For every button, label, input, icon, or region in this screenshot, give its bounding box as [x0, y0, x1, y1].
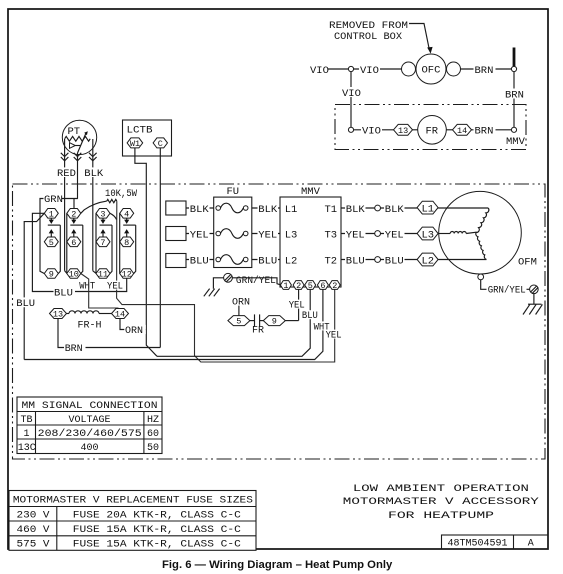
terminal W1	[127, 138, 143, 149]
contactor OFC	[402, 54, 461, 84]
terminal board LCTB	[123, 120, 172, 156]
wire ORN from 14	[120, 319, 146, 338]
svg-text:13: 13	[53, 310, 63, 320]
svg-text:LOW AMBIENT OPERATION: LOW AMBIENT OPERATION	[353, 483, 529, 495]
wire BRN from 13	[58, 319, 160, 356]
wire FR to 14	[446, 129, 452, 131]
label GRN/YEL	[235, 275, 276, 287]
svg-text:12: 12	[122, 270, 132, 280]
motor terminal L1	[417, 201, 438, 215]
plug arrow column 2	[67, 213, 83, 273]
wire BLU pin 5 to W1 trunk	[157, 290, 318, 357]
label YEL	[107, 281, 124, 293]
dash-dot accessory boundary box	[13, 184, 546, 459]
svg-text:FR-H: FR-H	[78, 321, 102, 332]
svg-text:GRN/YEL: GRN/YEL	[488, 285, 526, 297]
wire L1 into motor	[438, 207, 488, 209]
svg-text:1: 1	[49, 209, 54, 219]
field terminal square 2	[166, 227, 186, 241]
plug terminal 1	[44, 209, 58, 220]
terminal C	[153, 138, 167, 149]
svg-text:PT: PT	[68, 126, 81, 138]
svg-text:460 V: 460 V	[17, 524, 51, 536]
motor terminal L2	[417, 253, 438, 267]
svg-text:FU: FU	[227, 186, 240, 198]
svg-text:BLU: BLU	[258, 256, 277, 268]
wire VIO to node	[328, 68, 349, 70]
svg-text:3: 3	[100, 209, 105, 219]
wire YEL square2 to FU	[186, 229, 214, 242]
svg-text:208/230/460/575: 208/230/460/575	[38, 428, 142, 440]
wire break chevrons right	[89, 153, 97, 161]
dash-dot box MMV (small, top right)	[335, 105, 526, 150]
terminal 11	[96, 269, 110, 280]
svg-text:1: 1	[24, 429, 30, 440]
terminal 13 (heater)	[50, 309, 67, 320]
wire WHT jog to 14	[81, 274, 120, 309]
plug terminal 2	[67, 209, 81, 220]
contact terminal 9	[263, 316, 285, 327]
svg-text:OFM: OFM	[518, 256, 537, 268]
svg-text:ORN: ORN	[232, 297, 250, 308]
label YEL at pin 2a drop	[325, 330, 342, 342]
svg-text:BRN: BRN	[505, 90, 524, 102]
svg-text:BLK: BLK	[190, 204, 210, 216]
svg-text:T1: T1	[325, 204, 338, 216]
plug arrow column 3	[96, 213, 112, 273]
socket terminal 8	[120, 237, 134, 248]
svg-text:FUSE 15A KTK-R, CLASS C-C: FUSE 15A KTK-R, CLASS C-C	[73, 538, 241, 550]
svg-text:2: 2	[332, 281, 337, 291]
label RED	[57, 167, 77, 180]
potentiometer PT	[62, 120, 96, 154]
wire 9 to MMV pin 2	[285, 320, 298, 322]
wire BLK FU to MMV L1	[252, 203, 280, 216]
svg-text:LCTB: LCTB	[127, 124, 153, 136]
svg-text:11: 11	[98, 270, 108, 280]
node lower right	[511, 127, 516, 132]
svg-text:13C: 13C	[18, 443, 36, 454]
svg-text:FUSE 15A KTK-R, CLASS C-C: FUSE 15A KTK-R, CLASS C-C	[73, 524, 241, 536]
svg-text:YEL: YEL	[326, 331, 342, 342]
svg-text:Fig. 6 — Wiring Diagram – Heat: Fig. 6 — Wiring Diagram – Heat Pump Only	[162, 559, 393, 571]
svg-text:BLU: BLU	[190, 256, 209, 268]
svg-text:14: 14	[457, 126, 467, 136]
wire BLK joins terminal 11	[93, 271, 96, 274]
svg-text:MMV: MMV	[506, 136, 526, 148]
wire T2 BLU to node	[341, 255, 375, 268]
svg-text:14: 14	[115, 310, 125, 320]
wire ORN to contact 5	[238, 306, 240, 316]
svg-text:50: 50	[147, 443, 159, 454]
svg-text:YEL: YEL	[346, 230, 365, 242]
motor frame terminal	[478, 274, 484, 280]
svg-text:TB: TB	[21, 415, 33, 426]
svg-text:HZ: HZ	[147, 415, 159, 426]
resistor 10K,5W	[81, 188, 138, 219]
label BLU (block)	[54, 287, 76, 300]
svg-text:MMV: MMV	[301, 186, 321, 198]
svg-text:230 V: 230 V	[17, 509, 51, 521]
MMV pin 2a	[329, 281, 340, 291]
svg-text:BRN: BRN	[65, 344, 83, 355]
svg-text:BLK: BLK	[346, 204, 366, 216]
winding bottom	[476, 232, 487, 259]
node lower left	[348, 127, 353, 132]
leader arrow to OFC	[409, 24, 433, 54]
node T2	[375, 257, 381, 263]
motor terminal L3	[417, 227, 438, 241]
svg-text:VOLTAGE: VOLTAGE	[69, 415, 111, 426]
control box MMV	[280, 186, 341, 287]
svg-text:L3: L3	[285, 230, 298, 242]
svg-text:BRN: BRN	[475, 126, 494, 138]
wire L2 into motor	[438, 259, 486, 261]
svg-text:VIO: VIO	[342, 88, 361, 100]
svg-text:6: 6	[71, 238, 76, 248]
motor OFM body	[439, 191, 522, 274]
wire GRN/YEL to pin 1	[232, 278, 280, 285]
plug arrow column 4	[120, 213, 136, 273]
svg-text:C: C	[158, 139, 163, 149]
earth ground at OFM	[523, 294, 542, 315]
terminal 12	[120, 269, 134, 280]
svg-text:7: 7	[100, 238, 105, 248]
svg-text:2: 2	[71, 209, 76, 219]
wire W1 down and over	[135, 148, 157, 356]
wire 14 to node with BRN label	[472, 125, 512, 138]
wire node to terminal 13 with VIO label	[354, 125, 394, 138]
svg-text:5: 5	[49, 238, 54, 248]
terminal 14 (heater)	[112, 309, 129, 320]
svg-text:YEL: YEL	[107, 282, 123, 293]
svg-text:YEL: YEL	[258, 230, 277, 242]
wire C down to BRN	[159, 148, 161, 348]
plug arrow column 1	[48, 218, 61, 273]
MMV pin 1	[280, 281, 291, 291]
wire 13 to FR	[413, 129, 418, 131]
plug terminal 3	[96, 209, 110, 220]
svg-text:5: 5	[236, 317, 241, 327]
socket terminal 7	[96, 237, 110, 248]
contact FR	[250, 314, 264, 336]
svg-text:W1: W1	[130, 139, 140, 149]
wire BLK square1 to FU	[186, 203, 214, 216]
MMV pin 2	[293, 281, 304, 291]
svg-text:BLU: BLU	[385, 256, 404, 268]
terminal 9	[44, 269, 58, 280]
svg-text:L1: L1	[285, 204, 298, 216]
ground terminal GRN/YEL at FU	[213, 273, 232, 288]
svg-text:BLU: BLU	[302, 311, 318, 322]
wire T3 YEL to node	[341, 229, 375, 242]
svg-text:BLU: BLU	[54, 288, 73, 300]
svg-text:60: 60	[147, 429, 159, 440]
svg-text:BLK: BLK	[258, 204, 278, 216]
svg-text:L2: L2	[422, 255, 435, 267]
svg-text:1: 1	[283, 281, 288, 291]
svg-text:BLK: BLK	[385, 204, 405, 216]
svg-text:L1: L1	[422, 203, 435, 215]
svg-text:GRN/YEL: GRN/YEL	[236, 275, 276, 287]
svg-text:BLU: BLU	[16, 298, 35, 310]
terminal 14	[453, 124, 472, 135]
svg-text:YEL: YEL	[190, 230, 209, 242]
svg-text:400: 400	[81, 443, 99, 454]
wire BLU square3 to FU	[186, 255, 214, 268]
label WHT	[79, 281, 96, 293]
svg-text:GRN: GRN	[44, 194, 63, 206]
wire VIO vertical	[342, 72, 362, 128]
terminal 13	[394, 124, 413, 135]
node T3	[375, 231, 381, 237]
wire from resistor down (YEL)	[117, 201, 335, 362]
svg-text:T2: T2	[325, 256, 338, 268]
plug terminal 4	[120, 209, 134, 220]
socket terminal 5	[44, 237, 58, 248]
wire node to OFC with VIO label	[354, 64, 402, 77]
table MM SIGNAL CONNECTION	[17, 397, 162, 454]
wire BRN vertical	[505, 72, 525, 128]
wire RED joins terminal 10	[65, 271, 67, 274]
node at BRN	[511, 66, 516, 71]
wire YEL FU to MMV L3	[252, 229, 280, 242]
svg-text:48TM504591: 48TM504591	[448, 539, 508, 550]
node T1	[375, 205, 381, 211]
wire WHT pin 6 to far-left trunk	[24, 290, 330, 360]
svg-text:MOTORMASTER V ACCESSORY: MOTORMASTER V ACCESSORY	[343, 496, 540, 508]
wire PT right lead (BLK)	[92, 139, 94, 271]
svg-text:MM SIGNAL CONNECTION: MM SIGNAL CONNECTION	[22, 400, 158, 412]
svg-text:4: 4	[124, 209, 129, 219]
winding middle	[450, 232, 476, 234]
wire GRN	[40, 193, 78, 273]
wire break chevrons middle	[74, 153, 82, 161]
earth ground at FU	[204, 289, 220, 297]
svg-text:VIO: VIO	[360, 65, 379, 77]
wire BLU FU to MMV L2	[252, 255, 280, 268]
socket terminal 6	[67, 237, 81, 248]
wire YEL pin 2 down	[289, 290, 306, 321]
svg-text:VIO: VIO	[362, 126, 381, 138]
fuse block FU	[214, 186, 252, 268]
wire GRN to plug 2	[73, 199, 75, 209]
fuse 3	[216, 255, 248, 265]
title text	[343, 483, 540, 522]
svg-text:10K,5W: 10K,5W	[105, 188, 138, 200]
wire PT left lead (RED)	[64, 139, 66, 271]
wire T1 BLK to node	[341, 203, 375, 216]
terminal 10	[67, 269, 81, 280]
svg-text:FR: FR	[252, 326, 264, 337]
svg-text:OFC: OFC	[422, 65, 441, 77]
wire OFC to node BRN	[461, 64, 512, 77]
label BLK	[84, 167, 104, 180]
table MOTORMASTER V REPLACEMENT FUSE SIZES	[9, 491, 256, 551]
wire break chevrons left	[61, 153, 69, 161]
ground terminal at OFM	[530, 285, 539, 294]
svg-text:T3: T3	[325, 230, 338, 242]
wire to plug 1 from left	[24, 213, 44, 359]
note REMOVED FROM CONTROL BOX	[329, 20, 408, 43]
svg-text:BLU: BLU	[346, 256, 365, 268]
field terminal square 3	[166, 254, 186, 268]
thick stub above node	[513, 48, 516, 67]
svg-text:FOR HEATPUMP: FOR HEATPUMP	[388, 510, 494, 522]
svg-text:RED: RED	[57, 168, 76, 180]
wire node to L1 BLK	[381, 203, 418, 216]
wire L3 into motor	[438, 233, 450, 235]
wire BLU from plug 1	[32, 213, 126, 291]
contact terminal 5	[228, 316, 250, 327]
svg-text:YEL: YEL	[289, 301, 305, 312]
svg-text:WHT: WHT	[79, 282, 95, 293]
svg-text:MOTORMASTER V REPLACEMENT FUSE: MOTORMASTER V REPLACEMENT FUSE SIZES	[13, 495, 253, 507]
svg-text:FUSE 20A KTK-R, CLASS C-C: FUSE 20A KTK-R, CLASS C-C	[73, 509, 241, 521]
wire PT wiper lead	[77, 153, 79, 199]
svg-text:13: 13	[398, 126, 408, 136]
wire node to L3 YEL	[381, 229, 418, 242]
svg-text:9: 9	[49, 270, 54, 280]
svg-text:VIO: VIO	[310, 65, 329, 77]
label BLU (far left)	[16, 297, 37, 310]
svg-text:A: A	[528, 539, 534, 550]
wire GRN/YEL motor ground	[481, 280, 530, 297]
svg-text:8: 8	[124, 238, 129, 248]
drawing number box	[442, 535, 549, 550]
MMV pin 5	[305, 281, 316, 291]
relay coil FR	[418, 116, 447, 145]
svg-text:BLK: BLK	[84, 168, 104, 180]
svg-text:L2: L2	[285, 256, 298, 268]
svg-text:ORN: ORN	[125, 326, 143, 337]
fuse 1	[216, 203, 248, 213]
svg-text:575 V: 575 V	[17, 538, 51, 550]
svg-text:FR: FR	[426, 125, 439, 137]
MMV pin 6	[317, 281, 328, 291]
svg-text:9: 9	[272, 317, 277, 327]
wire node to L2 BLU	[381, 255, 418, 268]
svg-text:CONTROL BOX: CONTROL BOX	[334, 31, 403, 43]
field terminal square 1	[166, 201, 186, 215]
node (open terminal)	[348, 66, 353, 71]
fuse 2	[216, 229, 248, 239]
svg-text:L3: L3	[422, 229, 435, 241]
svg-text:10: 10	[69, 270, 79, 280]
winding top	[476, 208, 489, 233]
heater coil FR-H	[67, 311, 112, 332]
svg-text:BRN: BRN	[475, 65, 494, 77]
svg-text:YEL: YEL	[385, 230, 404, 242]
